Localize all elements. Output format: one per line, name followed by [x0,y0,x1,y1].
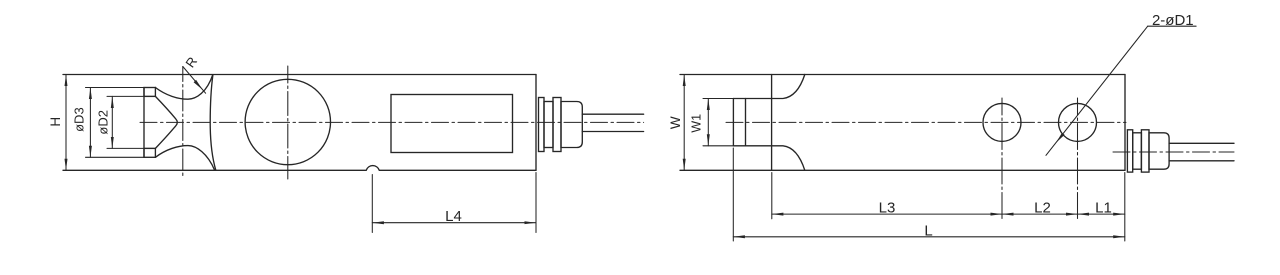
dimension H [65,75,67,171]
hole circle 2 [1059,103,1097,141]
hole 1 vertical centerline [1001,98,1003,219]
dimension L4 [372,173,536,233]
cable gland cap [561,102,582,148]
body bottom edge with notch [63,166,536,171]
plan cable bottom line [1169,160,1234,162]
leader 2-D1 [1046,26,1196,155]
plan gland nut [1141,130,1149,172]
svg-text:2-øD1: 2-øD1 [1152,12,1194,29]
cable bottom line [582,131,643,133]
centerline main axis (plan view) [726,121,1126,123]
plan gland ring [1133,133,1142,169]
centerline main axis (side view) [140,121,644,123]
plan cable top line [1169,142,1234,144]
leader R [183,67,206,94]
dimension D3 extension lines [86,88,145,158]
body top edge (with H extension) [63,74,536,76]
dimension L2 [1002,213,1078,215]
plan gland washer [1127,130,1132,172]
plan body left edge [771,75,773,171]
thread relief box top [144,88,155,97]
dimension L [733,148,1125,241]
hole vertical centerline [287,66,289,179]
end face vertical edge [143,88,145,158]
body right edge [535,75,537,171]
svg-text:W1: W1 [690,114,704,133]
svg-text:L4: L4 [445,208,462,225]
dimension W [683,75,685,171]
tongue inner line [745,99,747,146]
gauge pocket rectangle [391,95,513,153]
cable gland nut [553,98,561,152]
svg-text:L3: L3 [879,200,896,217]
tongue bottom edge with fillet [733,146,804,171]
svg-text:R: R [182,54,200,70]
svg-text:L: L [924,222,932,239]
tongue top edge with fillet [733,75,804,99]
conical seat V profile [155,96,177,148]
plan cable centerline [1113,151,1234,153]
svg-text:W: W [668,116,683,129]
dimension D2 extension lines [107,96,155,148]
hole 2 vertical centerline [1077,98,1079,219]
cable top line [582,113,643,115]
plan body top edge (with W extension) [680,74,1125,76]
lower groove arc [155,146,214,171]
svg-text:L2: L2 [1034,200,1051,217]
dimension L1 [1078,213,1125,215]
load axis centerline [182,67,184,177]
svg-text:øD3: øD3 [72,107,87,132]
hole circle 1 [983,103,1021,141]
cable gland ring [544,102,553,148]
svg-text:øD2: øD2 [95,110,110,135]
svg-text:L1: L1 [1095,200,1112,217]
plan gland cap [1149,133,1169,169]
dimension L3 [772,173,1002,219]
cable gland washer (side view) [539,98,545,152]
upper groove arc (radius R) [155,75,212,99]
svg-text:H: H [48,117,63,127]
tongue left edge [732,99,734,146]
hole circle [245,79,330,164]
plan body right edge [1124,75,1126,171]
thread relief box bottom [144,148,155,157]
dimension W1 [703,99,733,146]
plan body bottom edge [680,169,1125,171]
waist silhouette line [210,75,216,170]
